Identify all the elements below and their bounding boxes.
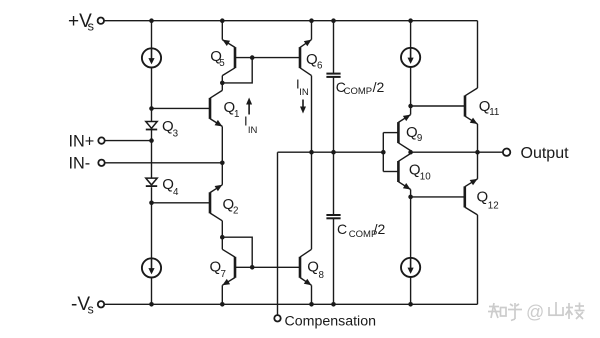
wire right column lower xyxy=(410,277,412,304)
junction IN- buffer node xyxy=(220,161,225,166)
junction Q5/Q6 base xyxy=(250,55,255,60)
svg-text:IN-: IN- xyxy=(69,155,91,173)
junction Q10 collector/Q12 base xyxy=(408,195,413,200)
wire output lead xyxy=(411,151,503,153)
wire left column: Q4 to lower source xyxy=(151,187,153,258)
svg-text:Output: Output xyxy=(521,145,570,162)
junction +Vs/Q6 xyxy=(309,18,314,23)
wire Q5 base-collector loop xyxy=(222,58,252,83)
junction Q7/Q8 base xyxy=(250,265,255,270)
wire Q2 base lead xyxy=(152,202,211,204)
junction output/Q11/Q12 xyxy=(475,150,480,155)
junction Q9 emitter/Q11 base xyxy=(408,104,413,109)
svg-text:C: C xyxy=(337,221,347,237)
wire Q9 base lead xyxy=(383,132,398,134)
svg-text:6: 6 xyxy=(317,61,323,72)
watermark zhihu @shanzhi xyxy=(489,306,499,308)
wire IN- lead xyxy=(105,162,222,164)
wire Q10 base lead xyxy=(383,171,398,173)
arrow IIN up (near Q1) xyxy=(248,104,250,115)
transistor Q6 xyxy=(299,47,302,68)
wire compensation riser xyxy=(277,152,279,315)
transistor Q11 xyxy=(464,96,467,117)
terminal -Vs xyxy=(98,301,104,307)
junction -Vs/Q8 xyxy=(309,302,314,307)
svg-text:11: 11 xyxy=(489,107,499,118)
wire Q7-Q8 base lead xyxy=(235,266,300,268)
svg-text:7: 7 xyxy=(221,269,226,280)
wire Q5-Q6 base lead xyxy=(235,57,300,59)
transistor Q2 xyxy=(209,192,212,213)
junction -Vs/I2 xyxy=(149,302,154,307)
wire Q2 collector to Q7 collector xyxy=(221,221,223,250)
svg-text:10: 10 xyxy=(420,172,431,183)
junction +Vs/I3 xyxy=(408,18,413,23)
wire Q10 collector to node xyxy=(410,190,412,197)
svg-text:/2: /2 xyxy=(374,221,386,237)
svg-text:Q: Q xyxy=(477,189,489,206)
svg-text:Q: Q xyxy=(307,259,319,276)
junction Q1 base node xyxy=(149,106,154,111)
svg-text:2: 2 xyxy=(233,205,238,216)
junction gain node/Q9Q10 base xyxy=(381,150,386,155)
transistor Q9 xyxy=(397,122,400,143)
junction gain node/Ccomp xyxy=(331,150,336,155)
wire left column: Q3 to Q4 xyxy=(151,129,153,178)
svg-text:Q: Q xyxy=(210,258,222,275)
wire Q8 emitter to -Vs xyxy=(311,285,313,304)
current source I4 (bottom right) xyxy=(401,258,420,277)
junction +Vs/Q5 xyxy=(220,18,225,23)
current source I3 (top right) xyxy=(401,48,420,67)
junction Q5 collector node xyxy=(220,81,225,86)
wire left column lower xyxy=(151,278,153,305)
diode Q3 xyxy=(146,122,157,129)
junction Q9/Q10 output node xyxy=(408,150,413,155)
wire Q1 base lead xyxy=(152,107,211,109)
current source I2 (bottom left) xyxy=(142,258,161,277)
transistor Q5 xyxy=(234,47,237,68)
wire right column: node to lower source xyxy=(410,197,412,258)
svg-text:1: 1 xyxy=(234,109,239,120)
wire Q5 emitter to +Vs xyxy=(221,21,223,40)
wire Q7 emitter to -Vs xyxy=(221,285,223,304)
wire Q12 collector to -Vs xyxy=(477,215,479,304)
terminal Output xyxy=(503,149,510,156)
terminal Compensation xyxy=(274,315,280,321)
svg-text:IN: IN xyxy=(248,125,258,136)
junction +Vs/Ccomp xyxy=(331,18,336,23)
wire Q11 emitter to output / Q12 emitter xyxy=(477,124,479,179)
wire Q9-Q10 base column xyxy=(382,133,384,172)
wire -Vs bottom rail xyxy=(104,303,477,305)
wire left bias column upper xyxy=(151,21,153,49)
wire Q6 emitter to +Vs xyxy=(311,21,313,40)
wire Q12 base lead xyxy=(411,196,465,198)
terminal IN+ xyxy=(98,137,104,143)
wire left column: source to Q3 xyxy=(151,67,153,121)
wire IN+ lead xyxy=(105,140,151,142)
svg-text:IN+: IN+ xyxy=(69,132,95,150)
svg-text:Compensation: Compensation xyxy=(285,314,377,330)
svg-text:Q: Q xyxy=(306,51,318,68)
wire right column: source to Q9 xyxy=(410,67,412,115)
svg-text:4: 4 xyxy=(173,187,179,198)
junction -Vs/Ccomp xyxy=(331,302,336,307)
wire Q7 base-collector loop xyxy=(222,237,252,267)
wire Q5 collector to Q1 collector xyxy=(221,76,223,91)
svg-text:3: 3 xyxy=(173,129,179,140)
svg-text:8: 8 xyxy=(319,270,325,281)
junction +Vs/I1 xyxy=(149,18,154,23)
junction Q2 base node xyxy=(149,201,154,206)
transistor Q7 xyxy=(234,257,237,278)
arrow IIN down (near Q6) xyxy=(302,100,304,108)
wire capacitor column upper xyxy=(333,21,335,73)
wire gain node horizontal xyxy=(278,151,384,153)
svg-text:@: @ xyxy=(526,302,544,322)
wire Q9 collector / Q10 emitter junction xyxy=(410,151,412,154)
junction -Vs/Q7 xyxy=(220,302,225,307)
transistor Q10 xyxy=(397,161,400,182)
svg-text:s: s xyxy=(88,19,95,34)
capacitor Ccomp/2 top xyxy=(326,73,340,75)
transistor Q1 xyxy=(209,98,212,119)
svg-text:COMP: COMP xyxy=(344,86,373,97)
wire right bias column upper xyxy=(410,21,412,48)
wire Q11 base lead xyxy=(411,105,465,107)
junction IN+ node xyxy=(149,138,154,143)
svg-text:/2: /2 xyxy=(373,79,385,95)
transistor Q8 xyxy=(299,257,302,278)
svg-text:5: 5 xyxy=(219,58,225,69)
svg-text:9: 9 xyxy=(417,133,422,144)
svg-text:IN: IN xyxy=(299,87,309,98)
current source I1 (top left) xyxy=(142,48,161,67)
junction Q7 collector node xyxy=(220,235,225,240)
wire capacitor column middle xyxy=(333,78,335,215)
wire Q6 collector to Q8 collector (gain node) xyxy=(311,76,313,250)
junction -Vs/I4 xyxy=(408,302,413,307)
wire capacitor column lower xyxy=(333,219,335,304)
wire Q1 emitter to Q2 emitter (IN- node) xyxy=(221,126,223,184)
svg-text:12: 12 xyxy=(488,201,499,212)
capacitor Ccomp/2 bottom xyxy=(326,214,340,216)
wire +Vs top rail xyxy=(104,20,477,22)
transistor Q12 xyxy=(463,186,466,207)
svg-text:s: s xyxy=(88,302,94,316)
diode Q4 xyxy=(146,178,157,185)
wire Q11 collector to +Vs xyxy=(477,21,479,88)
terminal IN- xyxy=(98,160,104,166)
terminal +Vs xyxy=(98,18,104,24)
junction gain node/Q8 xyxy=(309,150,314,155)
